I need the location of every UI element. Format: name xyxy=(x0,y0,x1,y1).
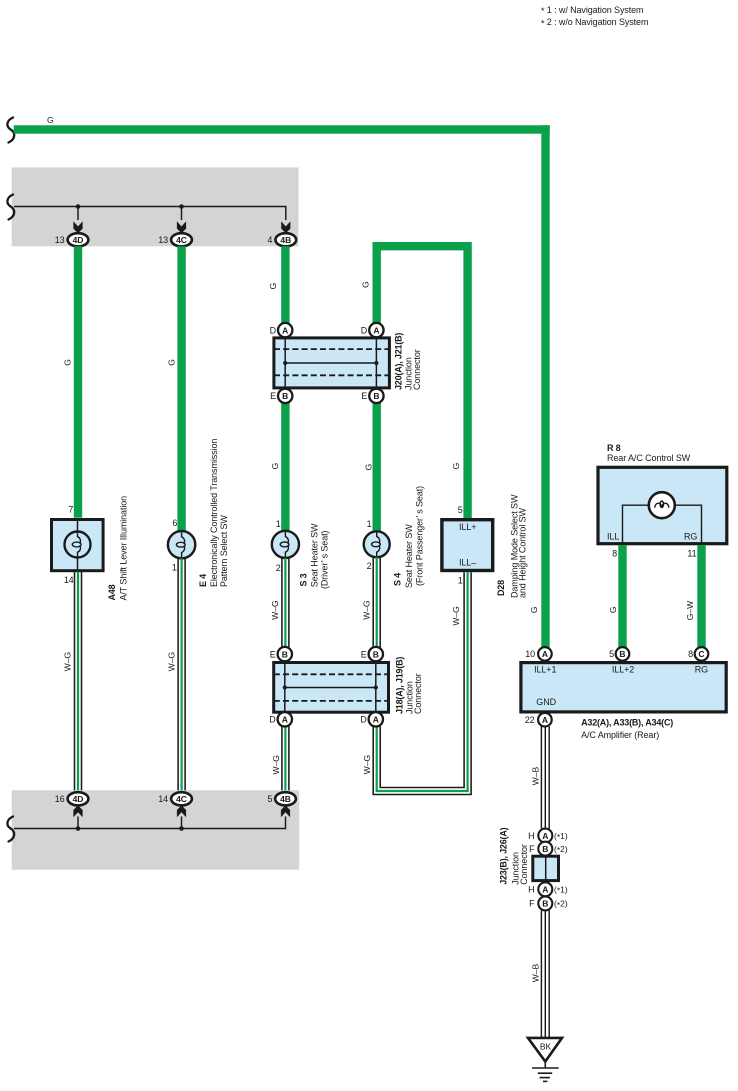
pin B circle (5) xyxy=(616,647,630,661)
svg-text:W–G: W–G xyxy=(451,606,461,625)
svg-text:A/T Shift Lever Illumination: A/T Shift Lever Illumination xyxy=(118,496,128,601)
svg-text:16: 16 xyxy=(55,794,65,804)
J23 pin A bottom xyxy=(538,882,552,896)
pin B circle J20 right xyxy=(369,389,383,403)
svg-text:A: A xyxy=(373,715,379,725)
svg-text:6: 6 xyxy=(172,518,177,528)
wire: green G from 4B to J20 pin A xyxy=(281,246,289,323)
svg-text:(*1): (*1) xyxy=(554,831,568,842)
connector oval 4B top xyxy=(275,233,296,246)
wire stub 4D xyxy=(77,817,79,829)
svg-text:* 2 : w/o Navigation System: * 2 : w/o Navigation System xyxy=(541,17,648,28)
svg-text:G–W: G–W xyxy=(685,601,695,620)
svg-text:F: F xyxy=(529,899,535,909)
svg-text:7: 7 xyxy=(68,504,73,514)
svg-text:W–G: W–G xyxy=(361,600,371,619)
svg-text:W–G: W–G xyxy=(270,600,280,619)
svg-text:14: 14 xyxy=(158,794,168,804)
svg-text:G: G xyxy=(608,606,618,613)
svg-text:A48: A48 xyxy=(107,584,117,600)
svg-text:E 4: E 4 xyxy=(198,574,208,587)
wire: green bus G horizontal xyxy=(14,125,550,133)
svg-text:(*1): (*1) xyxy=(554,885,568,896)
svg-text:A32(A), A33(B), A34(C): A32(A), A33(B), A34(C) xyxy=(581,718,673,728)
svg-text:G: G xyxy=(167,359,177,366)
svg-text:(*2): (*2) xyxy=(554,899,568,910)
break squiggle on band wire xyxy=(7,195,14,220)
wire: W-B from J23 to ground xyxy=(541,910,549,1038)
arrow into 4B xyxy=(281,221,290,233)
svg-text:A: A xyxy=(282,325,288,335)
wire: green G-W from R8 RG to amp pin 8 xyxy=(697,545,705,647)
svg-text:4B: 4B xyxy=(280,794,291,804)
R8 internal wire left xyxy=(623,505,649,545)
svg-text:RG: RG xyxy=(695,665,708,675)
pin C circle (8) xyxy=(695,647,709,661)
arrow into 4D xyxy=(73,221,82,233)
svg-text:D: D xyxy=(361,325,368,335)
svg-text:4B: 4B xyxy=(280,235,291,245)
connector oval 4C top xyxy=(171,233,192,246)
svg-text:13: 13 xyxy=(55,235,65,245)
wire: W-G U-loop from J18 pin A right to ILL- pin 1 xyxy=(373,572,471,794)
internal dashed line lower xyxy=(274,374,389,376)
svg-text:(*2): (*2) xyxy=(554,844,568,855)
svg-text:(Driver’ s Seat): (Driver’ s Seat) xyxy=(320,530,330,589)
svg-text:B: B xyxy=(373,649,379,659)
internal pin line left xyxy=(284,336,286,389)
svg-text:Connector: Connector xyxy=(412,349,422,390)
wire: W-G from E4 pin 1 to 4C bottom xyxy=(178,558,185,792)
svg-text:D: D xyxy=(360,715,367,725)
junction dot 4D xyxy=(76,826,81,831)
pin A circle (10) xyxy=(538,647,552,661)
svg-text:5: 5 xyxy=(609,649,614,659)
svg-text:W–B: W–B xyxy=(530,766,540,785)
J23 pin A top xyxy=(538,829,552,843)
R8 internal wire right xyxy=(675,505,702,545)
wire stub to 4D xyxy=(77,207,79,221)
svg-text:Seat Heater SW: Seat Heater SW xyxy=(404,524,414,588)
pin B circle J18 right top xyxy=(369,647,383,661)
svg-text:D: D xyxy=(269,715,276,725)
svg-text:B: B xyxy=(282,391,288,401)
internal bus line with dots xyxy=(285,362,376,364)
svg-text:Connector: Connector xyxy=(413,673,423,714)
svg-text:H: H xyxy=(528,831,534,841)
pin B circle J20 left xyxy=(278,389,292,403)
wire: green G from 4C to E4 xyxy=(177,246,185,531)
svg-text:A: A xyxy=(542,831,548,841)
pin A circle J18 left bottom xyxy=(278,712,292,726)
svg-text:14: 14 xyxy=(64,575,74,585)
S3 switch bulb xyxy=(272,531,299,558)
svg-text:13: 13 xyxy=(158,235,168,245)
junction connector J18(A), J19(B) box xyxy=(274,663,389,713)
svg-text:J20(A), J21(B): J20(A), J21(B) xyxy=(393,333,403,390)
connector oval 4D top xyxy=(68,233,89,246)
svg-text:1: 1 xyxy=(458,576,463,586)
svg-text:E: E xyxy=(361,649,367,659)
svg-text:1: 1 xyxy=(367,519,372,529)
svg-text:8: 8 xyxy=(612,549,617,559)
internal pin line left xyxy=(284,661,286,712)
svg-text:A/C Amplifier (Rear): A/C Amplifier (Rear) xyxy=(581,730,659,740)
A48 A/T Shift Lever Illumination box xyxy=(52,520,104,571)
svg-text:5: 5 xyxy=(267,794,272,804)
wire: green bus G vertical drop to A/C amplifier pin 10 xyxy=(541,125,549,647)
svg-text:S 4: S 4 xyxy=(393,573,403,586)
svg-text:G: G xyxy=(268,283,278,290)
arrow up into 4C xyxy=(177,805,186,817)
svg-text:G: G xyxy=(529,606,539,613)
svg-text:A: A xyxy=(373,325,379,335)
wire: green G from R8 ILL to amp pin 5 xyxy=(618,545,626,647)
internal dashed line upper xyxy=(274,673,389,675)
J23 box divider xyxy=(545,856,547,880)
wire: green G from 4D to A48 xyxy=(74,246,82,518)
svg-text:ILL+1: ILL+1 xyxy=(534,665,556,675)
svg-text:C: C xyxy=(698,649,704,659)
junction connector J20(A), J21(B) box xyxy=(274,338,390,388)
svg-text:R 8: R 8 xyxy=(607,443,621,453)
svg-text:(Front Passenger’ s Seat): (Front Passenger’ s Seat) xyxy=(414,486,424,586)
svg-text:ILL+: ILL+ xyxy=(459,522,476,532)
svg-text:4D: 4D xyxy=(73,794,84,804)
R8 bulb xyxy=(649,492,675,518)
svg-text:5: 5 xyxy=(458,505,463,515)
svg-text:Seat Heater SW: Seat Heater SW xyxy=(310,523,320,587)
svg-text:G: G xyxy=(451,463,461,470)
svg-text:G: G xyxy=(270,463,280,470)
A48 bulb xyxy=(65,532,91,558)
connector oval 4B bottom xyxy=(275,792,296,805)
svg-text:A: A xyxy=(542,649,548,659)
pin B circle J18 left top xyxy=(278,647,292,661)
svg-text:B: B xyxy=(542,844,548,854)
svg-text:A: A xyxy=(542,715,548,725)
junction dot 4C xyxy=(179,826,184,831)
internal dashed line upper xyxy=(274,348,389,350)
arrow into 4C xyxy=(177,221,186,233)
wire: W-G from A48 pin 14 to 4D bottom xyxy=(75,572,82,793)
svg-text:22: 22 xyxy=(525,715,535,725)
svg-text:B: B xyxy=(282,649,288,659)
svg-text:E: E xyxy=(270,649,276,659)
svg-text:A: A xyxy=(542,885,548,895)
svg-text:* 1 : w/ Navigation System: * 1 : w/ Navigation System xyxy=(541,5,643,16)
svg-text:J18(A), J19(B): J18(A), J19(B) xyxy=(395,657,405,714)
svg-text:B: B xyxy=(373,391,379,401)
J23 pin B bottom xyxy=(538,896,552,910)
break squiggle on bottom band wire xyxy=(7,817,14,842)
svg-text:J23(B), J26(A): J23(B), J26(A) xyxy=(498,827,508,884)
R8 box xyxy=(598,467,727,543)
wire stub to 4C xyxy=(181,207,183,221)
wire: bottom band wire with corner to 4B xyxy=(14,817,286,829)
pin A circle J20 left xyxy=(278,323,292,337)
svg-text:2: 2 xyxy=(367,561,372,571)
svg-text:W–G: W–G xyxy=(62,652,72,671)
D28 ILL box xyxy=(442,520,493,571)
svg-text:E: E xyxy=(361,391,367,401)
svg-text:W–G: W–G xyxy=(167,652,177,671)
svg-text:GND: GND xyxy=(536,697,556,707)
S4 switch bulb xyxy=(364,531,390,557)
svg-text:ILL+2: ILL+2 xyxy=(612,665,634,675)
A48 internal pin line bottom xyxy=(77,557,79,572)
arrow up into 4D xyxy=(73,805,82,817)
pin A circle (22) xyxy=(538,713,552,727)
E4 switch bulb xyxy=(168,531,195,558)
bottom shield band (gray) xyxy=(12,790,300,869)
internal dashed line lower xyxy=(274,700,389,702)
arrow up into 4B xyxy=(281,805,290,817)
J23 pin B top xyxy=(538,842,552,856)
svg-text:F: F xyxy=(529,844,535,854)
svg-text:4D: 4D xyxy=(73,235,84,245)
svg-text:2: 2 xyxy=(276,563,281,573)
svg-text:Connector: Connector xyxy=(519,844,529,885)
svg-text:11: 11 xyxy=(687,549,696,559)
svg-text:W–G: W–G xyxy=(271,755,281,774)
pin A circle J20 right xyxy=(369,323,383,337)
svg-text:B: B xyxy=(542,899,548,909)
ground symbol xyxy=(532,1062,559,1082)
svg-text:BK: BK xyxy=(540,1042,552,1052)
junction dot at 4C stub xyxy=(179,204,184,209)
svg-text:A: A xyxy=(282,715,288,725)
svg-text:E: E xyxy=(270,391,276,401)
svg-text:8: 8 xyxy=(688,649,693,659)
svg-text:W–G: W–G xyxy=(362,755,372,774)
svg-text:1: 1 xyxy=(172,563,177,573)
A48 internal pin line top xyxy=(77,518,79,532)
svg-text:10: 10 xyxy=(525,649,535,659)
connector oval 4C bottom xyxy=(171,792,192,805)
wire: W-G from J18 pin A left down to 4B bottom xyxy=(282,726,289,792)
svg-text:D28: D28 xyxy=(496,580,506,596)
svg-text:H: H xyxy=(528,885,534,895)
connector oval 4D bottom xyxy=(68,792,89,805)
svg-text:and Height Control SW: and Height Control SW xyxy=(517,507,527,598)
svg-text:4C: 4C xyxy=(176,794,187,804)
svg-text:D: D xyxy=(270,325,277,335)
svg-text:Pattern Select SW: Pattern Select SW xyxy=(219,515,229,587)
wire: green G J20 pin B down to S4 xyxy=(373,403,381,531)
svg-text:4C: 4C xyxy=(176,235,187,245)
svg-text:G: G xyxy=(62,359,72,366)
svg-text:G: G xyxy=(47,115,54,125)
junction dot at 4D stub xyxy=(76,204,81,209)
svg-text:ILL: ILL xyxy=(607,532,619,542)
wire: W-G from S3 pin 2 to J18 pin B xyxy=(282,558,289,647)
svg-text:G: G xyxy=(361,281,371,288)
wire: green G J20 pin B down to S3 xyxy=(281,403,289,531)
wire: W-G from S4 pin 2 to J18 pin B right xyxy=(373,557,380,647)
svg-text:1: 1 xyxy=(276,519,281,529)
wire: W-B from amp pin 22 to J23 xyxy=(541,727,549,829)
J23 junction connector box xyxy=(533,856,559,880)
break squiggle on green bus G xyxy=(7,118,14,143)
svg-text:4: 4 xyxy=(267,235,272,245)
svg-text:S 3: S 3 xyxy=(299,573,309,586)
svg-text:Rear A/C Control SW: Rear A/C Control SW xyxy=(607,453,691,463)
svg-text:B: B xyxy=(619,649,625,659)
top shield band (gray) xyxy=(12,167,299,246)
wire: thin band wire with corner to 4B xyxy=(14,207,286,221)
internal pin line right xyxy=(375,336,377,389)
internal bus line with dots xyxy=(285,687,376,689)
A/C Amplifier (Rear) box xyxy=(521,663,726,712)
svg-text:Electronically Controlled Tran: Electronically Controlled Transmission xyxy=(209,439,219,587)
wire: green G U-bend top (J21 to ILL+) xyxy=(377,246,468,518)
pin A circle J18 right bottom xyxy=(369,712,383,726)
wire stub 4C xyxy=(181,817,183,829)
svg-text:ILL–: ILL– xyxy=(459,557,476,567)
svg-text:W–B: W–B xyxy=(530,963,540,982)
svg-text:G: G xyxy=(363,464,373,471)
svg-text:RG: RG xyxy=(684,532,697,542)
ground triangle BK xyxy=(528,1038,562,1062)
internal pin line right xyxy=(375,661,377,712)
